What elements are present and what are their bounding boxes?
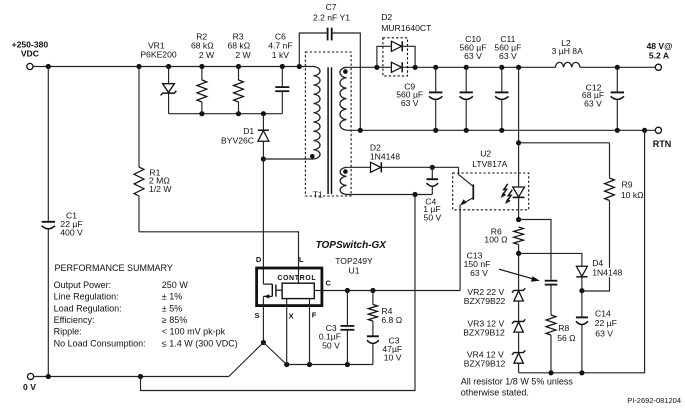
svg-text:R9: R9 [622,179,633,189]
svg-text:1/2 W: 1/2 W [149,184,172,194]
pin S [254,311,259,320]
transformer T1 secondary winding [340,67,348,130]
capacitor C6 [268,32,292,114]
node drain junction [261,156,314,161]
svg-text:63 V: 63 V [464,51,482,61]
node LED cathode [516,217,521,222]
svg-text:LTV817A: LTV817A [472,159,507,169]
wire RTN rail [347,129,656,131]
svg-text:C: C [325,278,331,287]
wire LED light arrows [501,184,513,204]
capacitor C3 47uF [367,321,402,365]
node RTN rail junctions [358,128,648,133]
node PI-2692-081204 text [627,396,681,405]
wire left input vertical [47,67,49,377]
op-amp U2 LTV817A optocoupler [453,149,529,210]
svg-text:T1: T1 [313,189,323,199]
svg-text:250 W: 250 W [162,280,189,290]
wire S pin to source node [261,296,266,345]
wire X F bus [284,362,373,367]
svg-text:BZX79B12: BZX79B12 [463,327,505,337]
svg-text:Line Regulation:: Line Regulation: [54,292,119,302]
svg-text:Output Power:: Output Power: [54,280,112,290]
wire X pin [286,299,288,365]
svg-text:< 100 mV pk-pk: < 100 mV pk-pk [162,327,226,337]
resistor R9 [519,143,645,291]
wire secondary output rail [347,66,656,68]
node output rail junctions [374,65,620,70]
svg-text:F: F [312,311,317,320]
svg-text:CONTROL: CONTROL [277,275,316,282]
svg-text:D: D [256,255,262,264]
transistor U2 phototransistor [459,167,474,205]
svg-text:S: S [254,311,259,320]
capacitor C1 [42,210,83,237]
pin L [299,255,304,264]
wire zener link 2 [518,332,520,353]
wire bias return [141,192,433,391]
svg-text:BZX79B12: BZX79B12 [464,359,506,369]
diode U2 LED [513,67,525,219]
resistor R2 [191,32,215,114]
svg-text:Efficiency:: Efficiency: [54,315,95,325]
capacitor C12 [582,67,624,130]
svg-text:BZX79B22: BZX79B22 [464,296,506,306]
pin X [289,311,294,320]
svg-text:10 kΩ: 10 kΩ [621,190,644,200]
diode D4 1N4148 [519,253,627,290]
terminal +250-380 VDC input [12,40,49,70]
svg-text:MUR1640CT: MUR1640CT [381,23,432,33]
svg-text:6.8 Ω: 6.8 Ω [381,315,402,325]
svg-text:48 V@: 48 V@ [646,41,672,51]
capacitor C14 [576,291,617,373]
diode D1 BYV26C [221,114,269,159]
svg-text:1N4148: 1N4148 [592,268,622,278]
capacitor C7 2.2nF Y1 [299,2,360,130]
svg-text:≥ 85%: ≥ 85% [162,315,187,325]
wire F pin [309,299,311,365]
wire C pin [314,288,460,293]
transformer T1 primary winding [310,67,320,160]
svg-text:otherwise stated.: otherwise stated. [461,388,529,398]
inductor L2 [552,38,583,67]
zener VR1 P6KE200 [140,40,177,113]
svg-text:2 W: 2 W [199,50,215,60]
svg-text:Ripple:: Ripple: [54,327,82,337]
node footnote text [461,377,574,398]
transistor U1 MOSFET [263,284,282,299]
resistor R6 [484,226,523,290]
svg-text:63 V: 63 V [499,51,517,61]
node R6 bottom [516,251,521,256]
zener VR2 BZX79B22 [464,287,526,306]
capacitor C9 [396,67,442,130]
diode D2 1N4148 bias [347,142,459,172]
pin D [256,255,262,264]
svg-text:L: L [299,255,304,264]
wire zener link 1 [518,301,520,322]
svg-text:1N4148: 1N4148 [370,152,400,162]
svg-text:RTN: RTN [653,139,672,149]
svg-text:C14: C14 [595,308,611,318]
diode D2 MUR1640CT [377,12,432,76]
wire feedback bottom bus [519,130,645,375]
svg-text:All resistor 1/8 W 5% unless: All resistor 1/8 W 5% unless [461,377,574,387]
svg-text:BYV26C: BYV26C [221,135,254,145]
svg-text:22 µF: 22 µF [595,318,617,328]
svg-text:± 1%: ± 1% [162,292,182,302]
svg-text:C7: C7 [326,2,337,12]
wire clamp bus [169,111,283,116]
wire U1 CONTROL box [277,275,316,298]
svg-text:≤ 1.4 W (300 VDC): ≤ 1.4 W (300 VDC) [162,338,238,348]
wire drain vertical to D pin [262,159,264,284]
svg-text:R8: R8 [558,323,569,333]
node input rail junctions [46,64,302,69]
terminal 48V output [646,41,672,71]
resistor R3 [227,32,251,114]
svg-text:TOPSwitch-GX: TOPSwitch-GX [316,240,388,251]
svg-text:5.2 A: 5.2 A [649,51,669,61]
resistor R4 [368,291,402,326]
svg-text:VDC: VDC [21,48,39,58]
capacitor C10 [460,34,487,130]
svg-text:56 Ω: 56 Ω [557,333,576,343]
svg-text:63 V: 63 V [470,268,488,278]
node bias node [430,165,435,170]
svg-text:50 V: 50 V [322,341,340,351]
svg-text:50 V: 50 V [424,213,442,223]
svg-text:3 µH 8A: 3 µH 8A [552,46,583,56]
capacitor C4 [423,167,441,222]
zener VR3 BZX79B12 [463,318,525,337]
svg-text:PERFORMANCE SUMMARY: PERFORMANCE SUMMARY [55,263,173,273]
node performance summary text [54,263,238,348]
svg-text:10 V: 10 V [384,353,402,363]
terminal RTN [653,127,672,149]
resistor R1 [134,67,172,232]
svg-text:2.2 nF Y1: 2.2 nF Y1 [313,13,350,23]
svg-text:U1: U1 [349,265,360,275]
wire top primary rail [33,66,313,68]
svg-text:± 5%: ± 5% [162,303,182,313]
svg-text:X: X [289,311,294,320]
pin F [312,311,317,320]
svg-text:63 V: 63 V [595,328,613,338]
svg-text:No Load Consumption:: No Load Consumption: [54,338,146,348]
node D4 cathode [579,288,584,293]
svg-text:100 Ω: 100 Ω [484,235,508,245]
svg-text:D2: D2 [381,12,392,22]
op-amp U1 TOP249Y TOPSwitch-GX [257,240,388,305]
svg-text:400 V: 400 V [60,227,83,237]
transformer T1 dashed box [305,52,351,199]
pin C [325,278,331,287]
transformer T1 bias winding [340,167,348,194]
transformer T1 core [328,67,331,194]
svg-text:Load Regulation:: Load Regulation: [54,303,122,313]
zener VR4 BZX79B12 [464,350,526,369]
wire opto emitter to C pin [459,205,461,291]
capacitor C3 0.1uF [319,291,355,365]
resistor R8 [546,315,576,373]
terminal 0 V [23,373,36,392]
svg-text:1 kV: 1 kV [272,50,289,60]
svg-text:PI-2692-081204: PI-2692-081204 [627,396,681,405]
capacitor C11 [494,34,521,130]
svg-text:0 V: 0 V [23,382,36,392]
svg-text:63 V: 63 V [401,98,419,108]
capacitor C13 [464,220,558,316]
wire R1 to L pin [139,232,299,283]
wire bottom primary rail [34,374,229,379]
svg-text:P6KE200: P6KE200 [140,50,177,60]
svg-text:U2: U2 [480,149,491,159]
node 48V feedback tap [516,140,521,145]
wire source node diagonals [229,343,287,377]
svg-text:63 V: 63 V [584,99,602,109]
svg-text:2 W: 2 W [235,50,251,60]
